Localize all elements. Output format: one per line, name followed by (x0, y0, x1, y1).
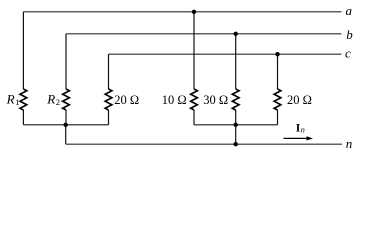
svg-text:2: 2 (56, 97, 60, 107)
svg-text:n: n (301, 126, 305, 135)
wire: phase b bus (66, 33, 342, 35)
wire: R2 top lead from phase b (65, 34, 67, 89)
junction: left group bottom (63, 123, 67, 127)
wire: 20 ohm (left) bottom lead (108, 110, 110, 125)
svg-text:30 Ω: 30 Ω (203, 93, 228, 107)
svg-text:1: 1 (15, 97, 19, 107)
wire: left group bottom bus (23, 124, 108, 126)
svg-text:10 Ω: 10 Ω (162, 93, 187, 107)
wire: phase c bus (109, 53, 342, 55)
wire: 20 ohm (left) top lead from phase c (108, 54, 110, 89)
resistor R1 (20, 89, 27, 110)
wire: 20 ohm (right) bottom lead (277, 110, 279, 125)
wire: neutral n bus (66, 143, 342, 145)
wire: right group bottom bus (194, 124, 278, 126)
svg-text:n: n (346, 136, 353, 151)
svg-text:20 Ω: 20 Ω (114, 93, 139, 107)
svg-text:20 Ω: 20 Ω (287, 93, 312, 107)
junction: 20 ohm right on phase c (275, 52, 279, 56)
svg-text:R: R (46, 91, 55, 106)
wire: neutral drop from left group (65, 125, 67, 144)
wire: R1 bottom lead (22, 110, 24, 125)
wire: R2 bottom lead (65, 110, 67, 125)
wire: 10 ohm top lead from phase a (193, 12, 195, 89)
wire: 20 ohm (right) top lead from phase c (277, 54, 279, 89)
wire: 30 ohm bottom lead (235, 110, 237, 125)
wire: phase a bus (23, 11, 341, 13)
svg-text:b: b (346, 27, 353, 42)
resistor 20 ohm left (105, 89, 112, 110)
junction: right drop on neutral (234, 142, 238, 146)
junction: 10 ohm on phase a (192, 10, 196, 14)
resistor 30 ohm (232, 89, 239, 110)
wire: neutral drop from right group (235, 125, 237, 144)
svg-text:R: R (6, 91, 15, 106)
wire: R1 top lead from phase a (22, 12, 24, 89)
resistor R2 (63, 89, 70, 110)
resistor 10 ohm (191, 89, 198, 110)
resistor 20 ohm right (274, 89, 281, 110)
svg-text:a: a (346, 3, 353, 18)
junction: right group bottom (234, 123, 238, 127)
junction: 30 ohm on phase b (234, 32, 238, 36)
svg-text:c: c (345, 46, 351, 61)
wire: 10 ohm bottom lead (193, 110, 195, 125)
arrow: In direction (284, 137, 308, 139)
wire: 30 ohm top lead from phase b (235, 34, 237, 89)
